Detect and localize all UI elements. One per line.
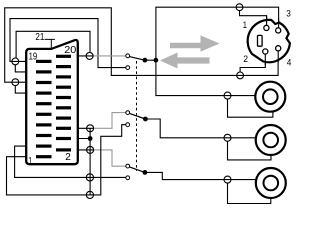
wire: L1 bottom branch to pin bar row2: [15, 65, 36, 72]
S-video pin3 hole: [276, 28, 281, 33]
svg-text:3: 3: [286, 9, 291, 20]
RCA jack 3 outer ring: [256, 168, 286, 198]
S-video key slot: [258, 35, 263, 46]
terminal circle: ground lead: [237, 72, 244, 79]
terminal circle: S-video lead: [236, 4, 243, 11]
junction dot: S1 pivot: [143, 58, 148, 63]
wire: switch S2 common to RCA2 tip: [145, 119, 255, 138]
SCART pin bars right column: [56, 55, 71, 152]
S-video pin2 hole: [263, 49, 268, 54]
junction dot: pin4 to ground bus: [88, 136, 93, 141]
switch S2 lower contact: [126, 123, 130, 127]
wire: RCA2 sleeve loop: [228, 141, 272, 160]
terminal circle pin20 (SCART right): [86, 52, 93, 59]
terminal circle: RCA1 lead: [224, 92, 231, 99]
bus crossing circle D (pin1): [86, 191, 93, 198]
svg-text:4: 4: [287, 57, 292, 68]
SCART pin bars left column: [36, 60, 52, 159]
wire stub: S-video pin2 inside shell: [264, 54, 266, 65]
wire stub: S-video pin3 inside shell: [278, 19, 280, 28]
switch S2 upper contact: [126, 111, 130, 115]
grey arrow left (signal direction): [160, 53, 210, 69]
switch S1 upper contact: [126, 54, 130, 58]
wire: SCART pin20 bar to terminal circle: [71, 55, 93, 57]
wire: SCART pin19 net via L1 around top-left to switch S1 lower contact: [10, 19, 126, 68]
wire: bus crossing B to switch S3 upper contact (grey): [94, 150, 126, 166]
S-video pin1 hole: [264, 25, 269, 30]
wire: L2 bottom branch to pin bar row4: [15, 86, 36, 94]
wire: RCA3 sleeve loop: [228, 183, 271, 204]
switch S3 lower contact: [126, 176, 130, 180]
SCART connector body: [26, 40, 78, 164]
wire: ground net (SCART pin17 row via L2, around top-left, across to S-video pin4): [5, 8, 278, 82]
S-video pin4 hole: [276, 46, 281, 51]
wire: switch S1 common to S-video pin3: [145, 7, 279, 60]
RCA jack 1 inner ring: [263, 89, 278, 104]
junction dot: S3 pivot: [143, 170, 148, 175]
switch S1 lever: [129, 57, 145, 61]
bus crossing circle B (pin2): [87, 146, 94, 153]
svg-text:2: 2: [65, 152, 71, 163]
RCA jack 1 outer ring: [255, 82, 285, 112]
svg-text:1: 1: [28, 156, 32, 167]
wire: L1 top branch over SCART to pin20 terminal top: [16, 31, 90, 58]
wire: SCART pin2 bar to bus crossing B: [71, 149, 94, 151]
terminal circle: RCA3 lead: [224, 176, 231, 183]
wire: S-video terminal branch down to pin1: [240, 11, 267, 26]
wire: switch S1 common down to RCA1 tip: [156, 60, 256, 95]
terminal circle: RCA2 lead: [224, 134, 231, 141]
wire: RCA1 sleeve loop: [228, 99, 273, 117]
wire: switch S3 common to RCA3 tip: [145, 172, 256, 179]
wire: SCART pin1 loop under connector to switch S2 lower contact: [7, 125, 126, 195]
switch S3 upper contact: [126, 164, 130, 168]
wire: ground bus vertical right of SCART: [89, 128, 91, 195]
junction dot: video branch node: [154, 58, 159, 63]
wire: ground stub from terminal up to S-video pin2: [240, 54, 265, 72]
svg-text:19: 19: [29, 51, 38, 62]
SCART pin21 tick mark: [45, 39, 55, 48]
terminal circle L1 (SCART left, pin19): [12, 58, 19, 65]
switch S3 lever: [129, 167, 145, 173]
wire: SCART pin4 bar to bus junction dot: [71, 138, 90, 140]
RCA jack 2 inner ring: [263, 133, 278, 148]
switch gang link (dashed): [136, 61, 138, 171]
switch S1 lower contact: [126, 66, 130, 70]
wire: SCART pin6 bar to bus crossing A: [71, 127, 94, 129]
wire: bus crossing A to switch S2 upper contact (grey): [94, 113, 126, 129]
RCA jack 2 outer ring: [256, 125, 286, 155]
bus crossing circle A (pin6): [87, 125, 94, 132]
junction dot: S2 pivot: [143, 117, 148, 122]
grey arrow right (signal direction): [170, 35, 220, 51]
wire: pin20 terminal to switch S1 upper contact (grey): [93, 55, 126, 57]
wire: SCART pin3 loop under connector to switch S3 lower contact: [15, 146, 126, 177]
switch S2 lever: [129, 113, 145, 119]
svg-text:21: 21: [35, 32, 44, 43]
svg-text:1: 1: [243, 20, 247, 31]
wire stub: S-video pin1 inside shell: [266, 16, 268, 25]
svg-text:20: 20: [64, 45, 76, 56]
bus crossing circle C (pin3): [86, 174, 93, 181]
svg-text:2: 2: [243, 54, 248, 65]
RCA jack 3 inner ring: [264, 176, 279, 191]
terminal circle L2 (SCART left, pin17): [12, 79, 19, 86]
S-video connector shell: [248, 20, 290, 62]
wire stub: S-video pin4 inside shell: [277, 51, 279, 62]
